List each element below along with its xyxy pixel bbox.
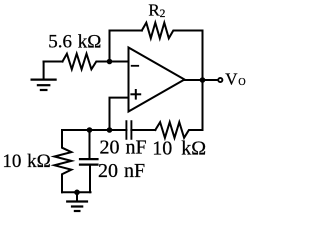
svg-text:2: 2 bbox=[160, 8, 166, 20]
svg-text:R: R bbox=[148, 1, 160, 20]
svg-text:V: V bbox=[225, 69, 238, 88]
svg-text:O: O bbox=[238, 77, 245, 88]
svg-text:20 nF: 20 nF bbox=[98, 160, 145, 182]
svg-text:10 kΩ: 10 kΩ bbox=[2, 151, 50, 172]
svg-text:20 nF: 20 nF bbox=[100, 137, 147, 159]
svg-text:10 kΩ: 10 kΩ bbox=[152, 137, 206, 159]
svg-text:5.6 kΩ: 5.6 kΩ bbox=[48, 32, 101, 53]
